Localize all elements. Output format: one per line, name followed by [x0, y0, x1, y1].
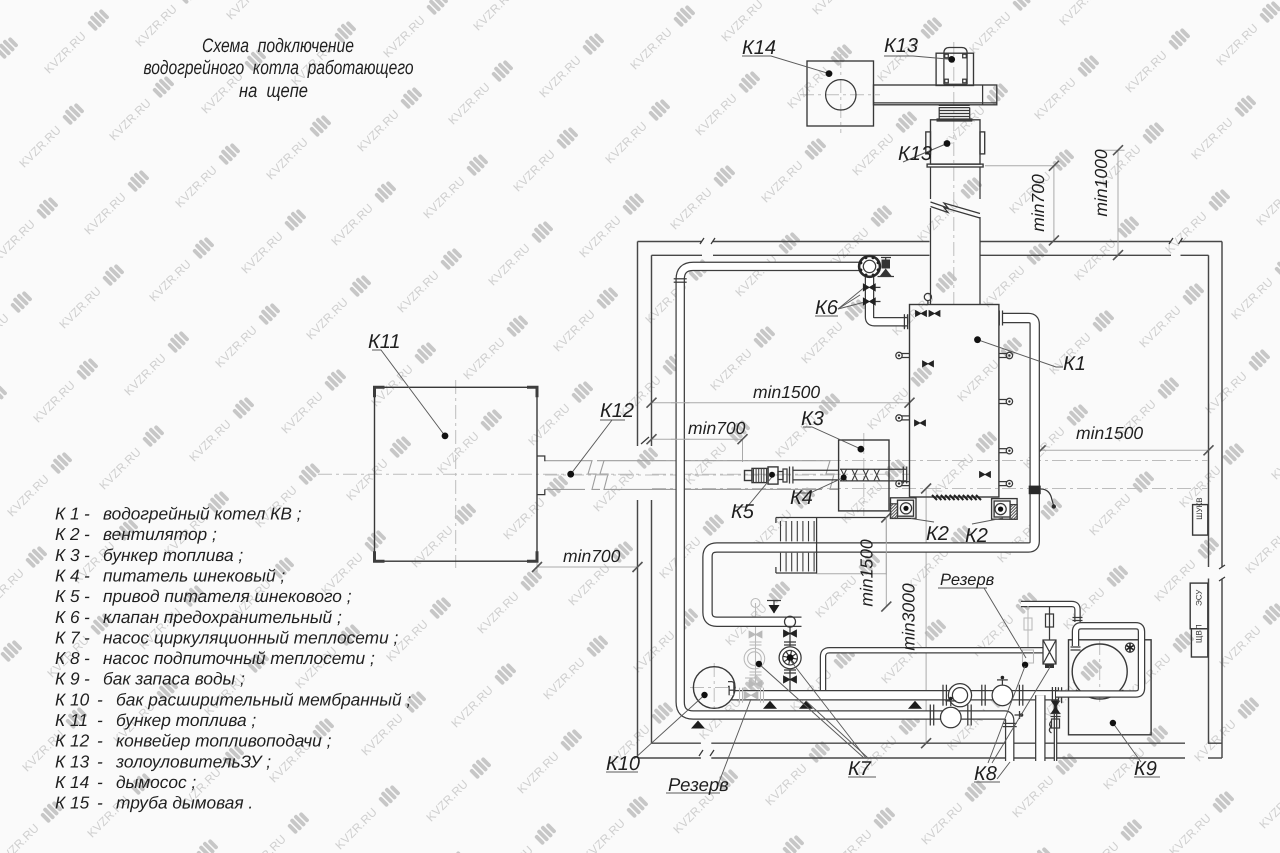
svg-text:KVZR.RU: KVZR.RU	[423, 777, 471, 825]
svg-text:конвейер топливоподачи ;: конвейер топливоподачи ;	[116, 731, 332, 751]
svg-text:KVZR.RU: KVZR.RU	[0, 217, 38, 265]
svg-text:-: -	[84, 627, 90, 647]
svg-text:KVZR.RU: KVZR.RU	[525, 401, 573, 449]
svg-text:KVZR.RU: KVZR.RU	[758, 158, 806, 206]
svg-text:-: -	[84, 545, 90, 565]
svg-text:KVZR.RU: KVZR.RU	[540, 655, 588, 703]
svg-text:KVZR.RU: KVZR.RU	[838, 479, 886, 527]
svg-text:KVZR.RU: KVZR.RU	[358, 711, 406, 759]
svg-text:KVZR.RU: KVZR.RU	[488, 843, 536, 853]
svg-text:бак расширительный мембранный: бак расширительный мембранный ;	[116, 689, 411, 709]
svg-text:-: -	[97, 689, 103, 709]
svg-text:KVZR.RU: KVZR.RU	[1151, 557, 1199, 605]
svg-text:KVZR.RU: KVZR.RU	[1256, 784, 1280, 832]
svg-text:KVZR.RU: KVZR.RU	[328, 201, 376, 249]
svg-text:KVZR.RU: KVZR.RU	[849, 131, 897, 179]
svg-text:KVZR.RU: KVZR.RU	[408, 523, 456, 571]
svg-text:KVZR.RU: KVZR.RU	[576, 213, 624, 261]
svg-text:KVZR.RU: KVZR.RU	[223, 0, 271, 22]
svg-text:клапан предохранительный ;: клапан предохранительный ;	[103, 607, 342, 627]
svg-text:ЭСУ: ЭСУ	[1195, 589, 1204, 606]
svg-text:KVZR.RU: KVZR.RU	[186, 417, 234, 465]
svg-text:К10: К10	[606, 753, 640, 775]
svg-text:KVZR.RU: KVZR.RU	[474, 589, 522, 637]
svg-text:KVZR.RU: KVZR.RU	[238, 229, 286, 277]
svg-text:KVZR.RU: KVZR.RU	[682, 440, 730, 488]
svg-text:KVZR.RU: KVZR.RU	[1071, 236, 1119, 284]
svg-text:KVZR.RU: KVZR.RU	[132, 2, 180, 50]
svg-text:насос циркуляционный теплосети: насос циркуляционный теплосети ;	[103, 627, 398, 647]
svg-text:KVZR.RU: KVZR.RU	[303, 295, 351, 343]
svg-text:KVZR.RU: KVZR.RU	[918, 800, 966, 848]
svg-text:KVZR.RU: KVZR.RU	[1202, 369, 1250, 417]
svg-text:К 7: К 7	[55, 627, 81, 647]
svg-text:К 6: К 6	[55, 607, 80, 627]
svg-text:KVZR.RU: KVZR.RU	[460, 335, 508, 383]
svg-text:К 13: К 13	[55, 751, 90, 771]
svg-text:KVZR.RU: KVZR.RU	[4, 472, 52, 520]
svg-text:-: -	[84, 648, 90, 668]
svg-text:на щепе: на щепе	[239, 80, 308, 102]
svg-text:KVZR.RU: KVZR.RU	[1228, 275, 1276, 323]
svg-text:KVZR.RU: KVZR.RU	[470, 0, 518, 33]
svg-text:KVZR.RU: KVZR.RU	[536, 53, 584, 101]
svg-text:KVZR.RU: KVZR.RU	[343, 456, 391, 504]
svg-text:KVZR.RU: KVZR.RU	[241, 832, 289, 853]
svg-text:насос подпиточный теплосети ;: насос подпиточный теплосети ;	[103, 648, 375, 668]
svg-text:KVZR.RU: KVZR.RU	[0, 660, 2, 708]
svg-text:-: -	[84, 524, 90, 544]
svg-text:К 12: К 12	[55, 731, 90, 751]
svg-text:KVZR.RU: KVZR.RU	[121, 351, 169, 399]
svg-text:KVZR.RU: KVZR.RU	[212, 323, 260, 371]
svg-text:-: -	[84, 586, 90, 606]
svg-text:К 3: К 3	[55, 545, 80, 565]
svg-text:KVZR.RU: KVZR.RU	[56, 284, 104, 332]
svg-text:KVZR.RU: KVZR.RU	[354, 107, 402, 155]
svg-text:К13: К13	[898, 143, 932, 165]
svg-text:KVZR.RU: KVZR.RU	[1162, 209, 1210, 257]
svg-text:-: -	[84, 669, 90, 689]
svg-text:KVZR.RU: KVZR.RU	[1056, 0, 1104, 28]
svg-text:ЩВП: ЩВП	[1195, 624, 1204, 643]
svg-text:К 2: К 2	[55, 524, 80, 544]
svg-text:KVZR.RU: KVZR.RU	[784, 64, 832, 112]
svg-text:KVZR.RU: KVZR.RU	[0, 566, 27, 614]
svg-text:KVZR.RU: KVZR.RU	[420, 174, 468, 222]
svg-text:вентилятор ;: вентилятор ;	[103, 524, 217, 544]
svg-text:-: -	[97, 731, 103, 751]
svg-text:KVZR.RU: KVZR.RU	[692, 91, 740, 139]
svg-text:KVZR.RU: KVZR.RU	[1191, 717, 1239, 765]
svg-text:KVZR.RU: KVZR.RU	[1242, 529, 1280, 577]
svg-text:KVZR.RU: KVZR.RU	[368, 362, 416, 410]
svg-text:водогрейного котла работающе: водогрейного котла работающего	[144, 57, 414, 79]
svg-text:min3000: min3000	[899, 583, 919, 650]
svg-text:К5: К5	[731, 501, 755, 523]
svg-text:KVZR.RU: KVZR.RU	[41, 29, 89, 77]
svg-text:KVZR.RU: KVZR.RU	[1074, 839, 1122, 853]
svg-text:К14: К14	[742, 37, 776, 59]
svg-text:К 11: К 11	[55, 710, 88, 730]
svg-text:-: -	[97, 751, 103, 771]
svg-text:водогрейный котел КВ ;: водогрейный котел КВ ;	[103, 504, 302, 524]
svg-text:KVZR.RU: KVZR.RU	[627, 25, 675, 73]
svg-text:KVZR.RU: KVZR.RU	[762, 761, 810, 809]
svg-text:KVZR.RU: KVZR.RU	[263, 135, 311, 183]
svg-text:К13: К13	[884, 35, 918, 57]
svg-text:-: -	[97, 710, 103, 730]
svg-text:К12: К12	[600, 400, 634, 422]
svg-text:KVZR.RU: KVZR.RU	[16, 123, 64, 171]
svg-text:-: -	[84, 607, 90, 627]
svg-text:KVZR.RU: KVZR.RU	[980, 263, 1028, 311]
svg-text:дымосос ;: дымосос ;	[116, 772, 196, 792]
svg-text:KVZR.RU: KVZR.RU	[732, 252, 780, 300]
svg-text:К 4: К 4	[55, 566, 80, 586]
svg-text:KVZR.RU: KVZR.RU	[1136, 303, 1184, 351]
svg-text:KVZR.RU: KVZR.RU	[565, 561, 613, 609]
svg-text:KVZR.RU: KVZR.RU	[550, 307, 598, 355]
svg-text:Резерв: Резерв	[940, 571, 995, 589]
svg-text:К9: К9	[1134, 758, 1157, 780]
svg-text:KVZR.RU: KVZR.RU	[514, 749, 562, 797]
svg-text:бункер топлива ;: бункер топлива ;	[116, 710, 256, 730]
svg-text:-: -	[97, 793, 103, 813]
svg-text:KVZR.RU: KVZR.RU	[1213, 21, 1261, 69]
svg-text:min1500: min1500	[1076, 423, 1143, 443]
svg-text:KVZR.RU: KVZR.RU	[809, 0, 857, 17]
svg-text:К 1: К 1	[55, 504, 80, 524]
svg-text:KVZR.RU: KVZR.RU	[1031, 75, 1079, 123]
svg-text:KVZR.RU: KVZR.RU	[602, 119, 650, 167]
svg-text:min700: min700	[563, 546, 621, 566]
svg-text:К7: К7	[848, 758, 872, 780]
svg-text:min1000: min1000	[1091, 149, 1111, 216]
svg-text:KVZR.RU: KVZR.RU	[1268, 435, 1280, 483]
svg-text:KVZR.RU: KVZR.RU	[172, 163, 220, 211]
svg-text:KVZR.RU: KVZR.RU	[448, 683, 496, 731]
svg-text:KVZR.RU: KVZR.RU	[1086, 491, 1134, 539]
svg-text:Резерв: Резерв	[668, 774, 729, 795]
svg-text:KVZR.RU: KVZR.RU	[914, 197, 962, 245]
svg-text:KVZR.RU: KVZR.RU	[707, 346, 755, 394]
svg-text:К8: К8	[974, 763, 997, 785]
svg-text:KVZR.RU: KVZR.RU	[966, 9, 1014, 57]
svg-text:труба дымовая .: труба дымовая .	[116, 793, 253, 813]
svg-text:KVZR.RU: KVZR.RU	[278, 389, 326, 437]
svg-text:KVZR.RU: KVZR.RU	[580, 816, 628, 853]
svg-text:К 9: К 9	[55, 669, 80, 689]
svg-text:KVZR.RU: KVZR.RU	[0, 311, 12, 359]
svg-text:KVZR.RU: KVZR.RU	[1253, 181, 1280, 229]
svg-text:Схема подключение: Схема подключение	[202, 35, 354, 57]
svg-text:KVZR.RU: KVZR.RU	[1122, 48, 1170, 96]
svg-text:KVZR.RU: KVZR.RU	[0, 821, 42, 853]
svg-text:-: -	[84, 566, 90, 586]
svg-text:ШУКВ: ШУКВ	[1195, 497, 1204, 519]
svg-text:К6: К6	[815, 297, 839, 319]
svg-text:К2: К2	[965, 525, 988, 547]
svg-text:min1500: min1500	[857, 539, 877, 606]
svg-text:KVZR.RU: KVZR.RU	[667, 185, 715, 233]
svg-text:К3: К3	[801, 408, 824, 430]
svg-text:К 10: К 10	[55, 689, 90, 709]
svg-text:min700: min700	[688, 418, 746, 438]
svg-text:KVZR.RU: KVZR.RU	[394, 268, 442, 316]
svg-text:KVZR.RU: KVZR.RU	[798, 319, 846, 367]
svg-text:KVZR.RU: KVZR.RU	[30, 378, 78, 426]
svg-text:К2: К2	[926, 523, 949, 545]
svg-text:К 8: К 8	[55, 648, 80, 668]
svg-text:KVZR.RU: KVZR.RU	[1188, 115, 1236, 163]
svg-text:KVZR.RU: KVZR.RU	[1009, 773, 1057, 821]
svg-text:min1500: min1500	[753, 382, 820, 402]
svg-text:min700: min700	[1028, 174, 1048, 232]
svg-text:KVZR.RU: KVZR.RU	[1216, 623, 1264, 671]
svg-text:KVZR.RU: KVZR.RU	[1166, 811, 1214, 853]
svg-text:KVZR.RU: KVZR.RU	[434, 429, 482, 477]
svg-text:К 14: К 14	[55, 772, 89, 792]
svg-text:К 15: К 15	[55, 793, 90, 813]
svg-text:золоуловительЗУ ;: золоуловительЗУ ;	[115, 751, 271, 771]
svg-text:KVZR.RU: KVZR.RU	[954, 357, 1002, 405]
svg-text:KVZR.RU: KVZR.RU	[146, 257, 194, 305]
svg-text:бак запаса воды ;: бак запаса воды ;	[103, 669, 245, 689]
svg-text:KVZR.RU: KVZR.RU	[827, 827, 875, 853]
svg-text:бункер топлива ;: бункер топлива ;	[103, 545, 243, 565]
svg-text:KVZR.RU: KVZR.RU	[380, 13, 428, 61]
svg-text:KVZR.RU: KVZR.RU	[500, 495, 548, 543]
svg-text:KVZR.RU: KVZR.RU	[445, 80, 493, 128]
svg-text:питатель шнековый ;: питатель шнековый ;	[103, 566, 285, 586]
svg-text:KVZR.RU: KVZR.RU	[510, 147, 558, 195]
svg-text:К4: К4	[790, 487, 813, 509]
svg-text:KVZR.RU: KVZR.RU	[812, 573, 860, 621]
svg-text:-: -	[97, 772, 103, 792]
svg-text:KVZR.RU: KVZR.RU	[96, 445, 144, 493]
svg-text:KVZR.RU: KVZR.RU	[485, 241, 533, 289]
svg-text:KVZR.RU: KVZR.RU	[929, 451, 977, 499]
svg-text:привод питателя шнекового ;: привод питателя шнекового ;	[103, 586, 352, 606]
svg-text:KVZR.RU: KVZR.RU	[81, 190, 129, 238]
svg-text:KVZR.RU: KVZR.RU	[332, 805, 380, 853]
svg-text:К 5: К 5	[55, 586, 80, 606]
svg-text:KVZR.RU: KVZR.RU	[106, 96, 154, 144]
svg-text:KVZR.RU: KVZR.RU	[864, 385, 912, 433]
svg-text:К11: К11	[368, 331, 401, 353]
svg-text:-: -	[84, 504, 90, 524]
svg-text:KVZR.RU: KVZR.RU	[670, 789, 718, 837]
svg-text:К1: К1	[1063, 353, 1086, 375]
svg-text:KVZR.RU: KVZR.RU	[0, 0, 24, 10]
